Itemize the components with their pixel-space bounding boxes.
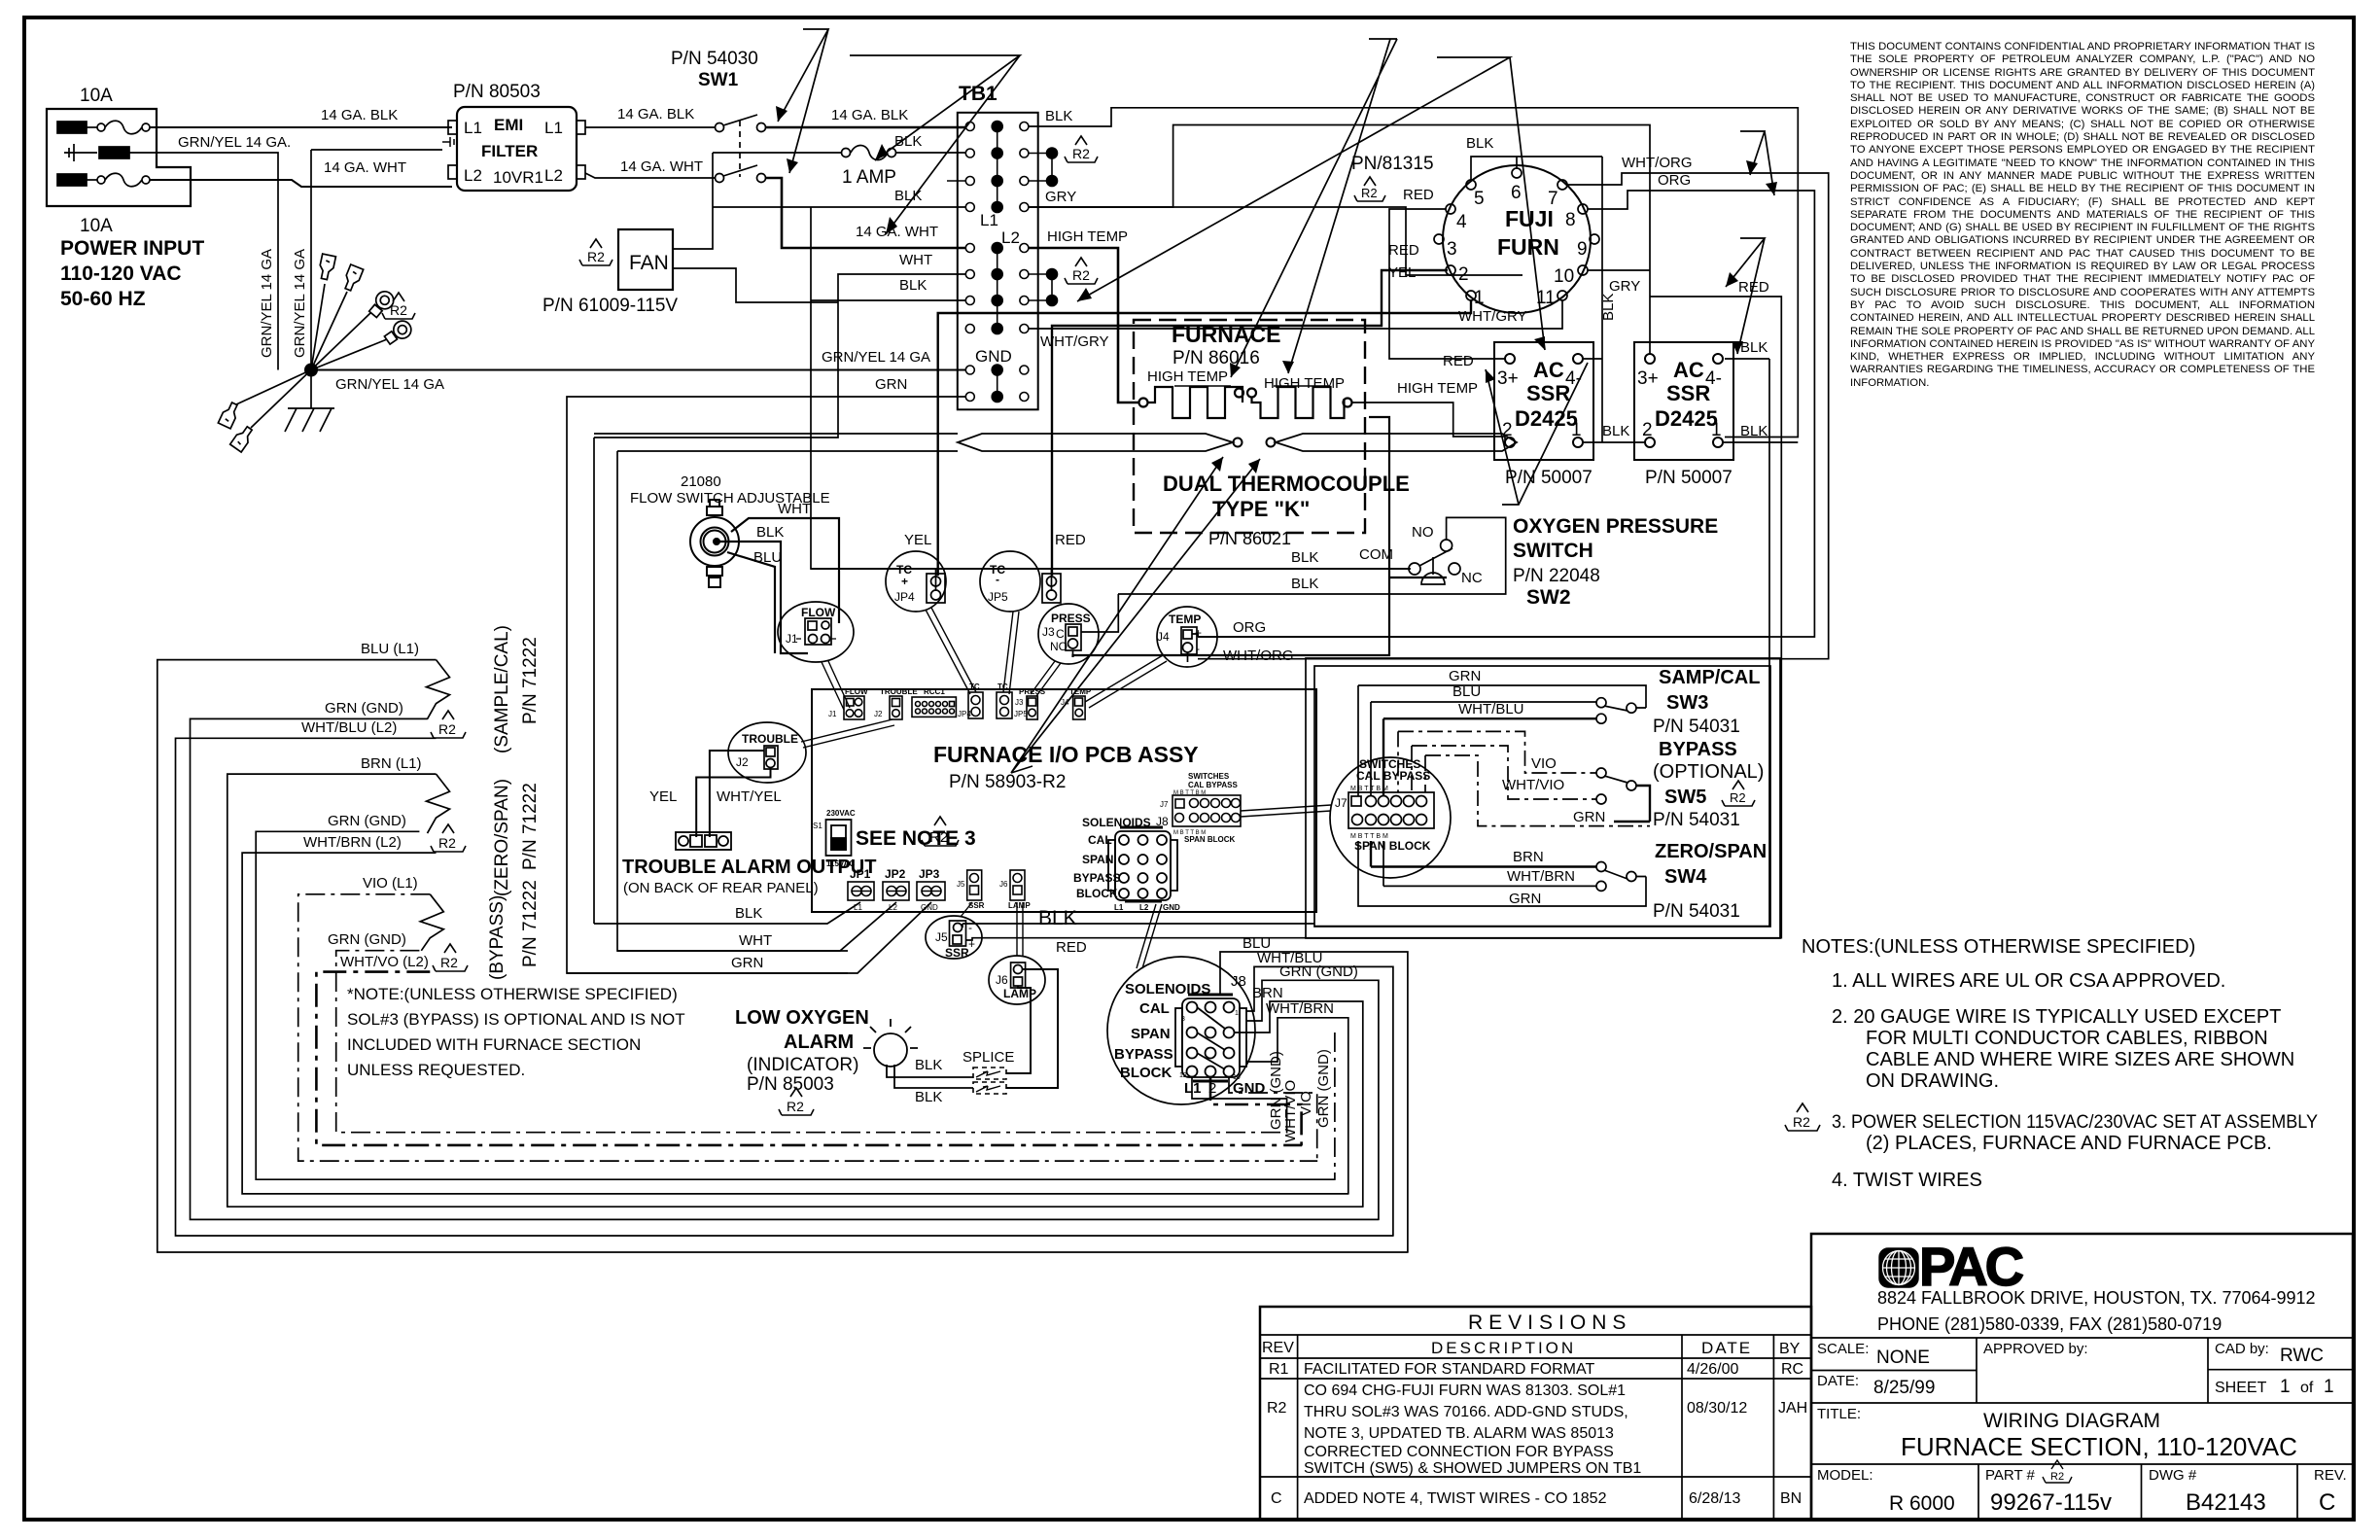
- svg-text:WHT/BRN: WHT/BRN: [1507, 868, 1575, 885]
- svg-text:L2: L2: [544, 166, 563, 185]
- svg-text:P/N 71222: P/N 71222: [520, 637, 541, 724]
- wire GRN to SW4 common: [1358, 841, 1646, 906]
- svg-text:WHT/VO (L2): WHT/VO (L2): [340, 954, 429, 970]
- wire BRN L1 loop: [227, 774, 1364, 1207]
- PCB JP2 connector: [883, 882, 909, 900]
- svg-text:3: 3: [1181, 1016, 1185, 1023]
- svg-text:SHEET: SHEET: [2215, 1380, 2267, 1396]
- svg-text:R2: R2: [929, 829, 948, 846]
- svg-text:P/N 86016: P/N 86016: [1172, 348, 1260, 368]
- svg-text:BRN (L1): BRN (L1): [361, 755, 422, 772]
- switch SW5 BYPASS dashed wiring: [1398, 731, 1650, 825]
- svg-text:JP3: JP3: [919, 867, 940, 881]
- leader arrow top left pair: [850, 55, 1020, 234]
- svg-text:J2: J2: [736, 755, 749, 769]
- svg-text:L2: L2: [1001, 228, 1020, 247]
- wires thermocouple to left loop verticals: [594, 434, 958, 951]
- svg-text:10A: 10A: [80, 216, 113, 236]
- R2 triangle sw5: [1722, 781, 1755, 806]
- svg-text:SSR: SSR: [968, 901, 985, 910]
- svg-text:PHONE (281)580-0339, FAX: PHONE (281)580-0339, FAX (281)580-0719: [1877, 1314, 2222, 1334]
- wire SSR2 pin1 BLK up right: [1723, 441, 1798, 443]
- wire EMI L2 to SW1: [585, 173, 716, 178]
- svg-text:GRN/YEL 14 GA.: GRN/YEL 14 GA.: [178, 134, 291, 151]
- svg-text:GRN/YEL 14 GA: GRN/YEL 14 GA: [259, 249, 275, 358]
- PCB J5 connector: [967, 870, 982, 900]
- TROUBLE balloon J2: [728, 722, 806, 783]
- svg-text:1: 1: [1235, 1010, 1239, 1017]
- wire J6 lamp circuit to splice: [1006, 969, 1058, 1088]
- svg-text:9: 9: [1577, 239, 1588, 260]
- svg-text:TEMP: TEMP: [1169, 612, 1201, 626]
- svg-text:CAL: CAL: [1088, 833, 1112, 847]
- wire BRN from J8: [1235, 1001, 1363, 1207]
- svg-text:C: C: [1271, 1490, 1282, 1507]
- svg-text:08/30/12: 08/30/12: [1687, 1400, 1747, 1417]
- svg-text:R 6000: R 6000: [1889, 1492, 1955, 1515]
- svg-text:SPAN BLOCK: SPAN BLOCK: [1184, 835, 1236, 844]
- svg-text:AC: AC: [1673, 358, 1704, 382]
- confidential proprietary text block: [1850, 41, 2315, 430]
- leader TROUBLE balloon to PCB J2: [801, 719, 894, 748]
- svg-text:R2: R2: [587, 249, 605, 264]
- svg-text:AC: AC: [1533, 358, 1564, 382]
- wire RED from J5 plus: [966, 938, 1306, 940]
- svg-text:P/N 50007: P/N 50007: [1645, 468, 1732, 488]
- svg-text:(ON BACK OF REAR PANEL): (ON BACK OF REAR PANEL): [623, 880, 819, 896]
- PAC logo globe: [1879, 1248, 1918, 1287]
- wire GRN(GND) left vertical from J8 bottom: [1192, 1077, 1287, 1133]
- fuse 1 AMP: [713, 146, 965, 160]
- svg-text:RED: RED: [1388, 242, 1419, 259]
- fuse F2 bottom: [57, 173, 150, 187]
- svg-text:SAMP/CAL: SAMP/CAL: [1659, 667, 1760, 688]
- leader TC+ to PCB JP4: [926, 608, 976, 694]
- svg-text:BYPASS: BYPASS: [1114, 1046, 1173, 1063]
- svg-text:21080: 21080: [681, 473, 721, 490]
- J6 LAMP balloon: [989, 956, 1045, 1004]
- svg-text:L1: L1: [980, 211, 998, 229]
- wire GRY TB1 row4 to SSR2 3+ riser: [1029, 125, 1650, 355]
- svg-text:SWITCH: SWITCH: [1513, 540, 1593, 562]
- wire SSR1 pin2 left (high temp): [1352, 402, 1505, 442]
- svg-text:BRN: BRN: [1252, 985, 1283, 1001]
- wire FAN bottom to WHT vertical: [673, 268, 838, 302]
- R2 triangle marker (TB1 lower): [1065, 258, 1098, 284]
- svg-text:GRN: GRN: [875, 376, 907, 393]
- svg-text:WHT/BRN: WHT/BRN: [1266, 1000, 1334, 1017]
- wire TB1 row6 WHT left-down loop to JP2: [594, 274, 965, 924]
- svg-text:GRN: GRN: [1509, 891, 1541, 907]
- svg-text:WIRING DIAGRAM: WIRING DIAGRAM: [1983, 1410, 2160, 1432]
- svg-text:GRN: GRN: [1449, 668, 1481, 684]
- svg-text:B42143: B42143: [2186, 1489, 2266, 1516]
- wire BLK from J5 minus: [962, 924, 1314, 927]
- svg-text:RC: RC: [1781, 1361, 1803, 1378]
- svg-text:5: 5: [1474, 189, 1485, 209]
- svg-text:L1: L1: [544, 119, 563, 137]
- PCB JP5 connector: [997, 692, 1012, 718]
- svg-text:SPAN: SPAN: [1082, 853, 1113, 866]
- svg-text:TITLE:: TITLE:: [1817, 1406, 1861, 1422]
- svg-text:BLU: BLU: [1452, 683, 1481, 700]
- heater element left: [1139, 387, 1244, 418]
- svg-text:14 GA. BLK: 14 GA. BLK: [831, 107, 908, 123]
- leader J6 balloon to PCB J6: [1017, 902, 1023, 956]
- svg-text:GRN (GND): GRN (GND): [1315, 1049, 1332, 1128]
- R2 triangle (alarm): [779, 1088, 814, 1115]
- svg-text:8824 FALLBROOK DRIVE, HOUSTO: 8824 FALLBROOK DRIVE, HOUSTON, TX. 77064…: [1877, 1288, 2316, 1308]
- PCB J4 connector: [1073, 696, 1086, 719]
- wire WHT/BRN from J8: [1246, 1018, 1348, 1195]
- leader arrow top right pair 1: [1740, 131, 1777, 195]
- svg-text:BLK: BLK: [915, 1089, 942, 1105]
- svg-text:(2) PLACES, FURNACE AND FURNAC: (2) PLACES, FURNACE AND FURNACE PCB.: [1866, 1133, 2272, 1154]
- svg-text:COM: COM: [1359, 546, 1393, 563]
- svg-text:2. 20 GAUGE WIRE IS TYPICALLY: 2. 20 GAUGE WIRE IS TYPICALLY USED EXCEP…: [1832, 1006, 2281, 1028]
- svg-text:GRN: GRN: [731, 955, 763, 971]
- svg-text:SPLICE: SPLICE: [962, 1049, 1014, 1066]
- svg-text:BRN: BRN: [1513, 849, 1544, 865]
- svg-text:J4: J4: [1157, 630, 1170, 644]
- svg-text:R2: R2: [1072, 146, 1090, 161]
- svg-text:UNLESS REQUESTED.: UNLESS REQUESTED.: [347, 1061, 525, 1079]
- PCB J8 connector SOLENOIDS: [1108, 827, 1177, 901]
- svg-text:GRN (GND): GRN (GND): [328, 813, 406, 829]
- splice: [973, 1067, 1006, 1094]
- svg-text:SW5: SW5: [1664, 787, 1706, 808]
- svg-text:P/N 50007: P/N 50007: [1505, 468, 1592, 488]
- svg-text:SOL#3 (BYPASS) IS OPTIONAL AND: SOL#3 (BYPASS) IS OPTIONAL AND IS NOT: [347, 1010, 685, 1029]
- PCB J6 connector: [1010, 870, 1025, 900]
- wire TB1 row3 stub: [947, 180, 965, 182]
- wire SSR1 4- BLK vertical: [1583, 157, 1602, 442]
- wire TB1 row5 HIGH TEMP down to furnace: [1029, 248, 1138, 402]
- svg-text:L1: L1: [464, 119, 482, 137]
- wire 1AMP fuse vertical down to SW2 COM: [811, 207, 1411, 569]
- svg-text:BLU (L1): BLU (L1): [361, 641, 419, 657]
- svg-text:BLK: BLK: [756, 524, 784, 541]
- svg-text:WHT/GRY: WHT/GRY: [1040, 333, 1109, 350]
- svg-text:4: 4: [1456, 212, 1467, 232]
- J5 SSR balloon: [926, 916, 982, 959]
- wire WHT/BLU from J8: [1246, 966, 1393, 1236]
- PCB JP4 connector: [968, 692, 983, 718]
- title block: [1811, 1234, 2353, 1520]
- svg-text:R2: R2: [440, 955, 458, 970]
- switch SW1 dashed link: [739, 121, 741, 177]
- svg-text:OXYGEN PRESSURE: OXYGEN PRESSURE: [1513, 515, 1718, 538]
- svg-text:8: 8: [1565, 210, 1576, 230]
- svg-text:TROUBLE: TROUBLE: [880, 687, 918, 696]
- wire BLK to JP1: [594, 902, 860, 924]
- svg-text:230VAC: 230VAC: [826, 809, 856, 818]
- svg-text:14 GA. BLK: 14 GA. BLK: [321, 107, 398, 123]
- wire element link top small box: [1174, 385, 1330, 387]
- svg-text:VIO (L1): VIO (L1): [363, 875, 418, 892]
- svg-text:CAL BYPASS: CAL BYPASS: [1356, 769, 1430, 783]
- EMI filter box P/N 80503: [442, 107, 585, 191]
- svg-text:P/N 71222: P/N 71222: [520, 880, 541, 967]
- svg-text:8/25/99: 8/25/99: [1873, 1378, 1935, 1398]
- svg-text:R2: R2: [1267, 1400, 1287, 1417]
- svg-text:50-60 HZ: 50-60 HZ: [60, 288, 146, 310]
- wire VIO dashdot from J8: [1229, 1077, 1317, 1162]
- svg-text:ON DRAWING.: ON DRAWING.: [1866, 1070, 1999, 1092]
- svg-text:R2: R2: [1793, 1114, 1810, 1130]
- svg-text:1: 1: [1474, 288, 1485, 308]
- svg-text:HIGH TEMP: HIGH TEMP: [1047, 228, 1128, 245]
- svg-text:VIO: VIO: [1298, 1091, 1314, 1116]
- FUJI FURN connector circle: [1434, 165, 1599, 313]
- svg-text:BLK: BLK: [1740, 339, 1767, 356]
- svg-text:WHT/YEL: WHT/YEL: [717, 788, 782, 805]
- svg-text:REV.: REV.: [2314, 1467, 2347, 1484]
- svg-text:LOW OXYGEN: LOW OXYGEN: [735, 1007, 869, 1029]
- wire GRN GND loop: [191, 718, 1380, 1219]
- svg-text:SW3: SW3: [1666, 692, 1708, 714]
- svg-text:NOTES:(UNLESS OTHERWISE SPECIF: NOTES:(UNLESS OTHERWISE SPECIFIED): [1802, 936, 2195, 958]
- leader arrow top SW1: [776, 29, 828, 173]
- svg-text:WHT/BRN (L2): WHT/BRN (L2): [303, 834, 402, 851]
- wire SW1 L2 down and to TB1 row5 14GA WHT: [765, 178, 965, 248]
- svg-text:WHT: WHT: [739, 932, 772, 949]
- svg-text:JP5: JP5: [1014, 710, 1028, 718]
- svg-text:J7: J7: [1335, 796, 1347, 810]
- svg-text:ZERO/SPAN: ZERO/SPAN: [1655, 841, 1767, 862]
- svg-text:NOTE 3, UPDATED TB. ALARM WAS: NOTE 3, UPDATED TB. ALARM WAS 85013: [1304, 1425, 1614, 1442]
- svg-text:-: -: [996, 573, 999, 586]
- svg-text:BLK: BLK: [1602, 423, 1629, 439]
- svg-text:M B T T B M: M B T T B M: [1173, 790, 1206, 796]
- svg-text:EMI: EMI: [494, 116, 523, 134]
- svg-text:1: 1: [2324, 1377, 2334, 1397]
- wire GRN/YEL to TB1 row9: [311, 369, 965, 371]
- wire TEMP+ ORG right: [1192, 634, 1769, 637]
- svg-text:JP5: JP5: [988, 590, 1008, 604]
- svg-text:REVISIONS: REVISIONS: [1468, 1312, 1631, 1334]
- wire TB1 row7 BLK to vertical x834: [811, 299, 965, 301]
- svg-text:6: 6: [1511, 183, 1522, 203]
- svg-text:APPROVED by:: APPROVED by:: [1983, 1341, 2088, 1357]
- svg-text:INCLUDED WITH FURNACE SECTION: INCLUDED WITH FURNACE SECTION: [347, 1035, 641, 1054]
- wire BLU L1 loop: [157, 660, 1409, 1252]
- wire SSR1 pin1 BLK to SSR2 pin2: [1583, 441, 1645, 443]
- PCB J3 connector: [1027, 696, 1037, 719]
- svg-text:GRN (GND): GRN (GND): [325, 700, 403, 717]
- svg-text:WHT/VIO: WHT/VIO: [1282, 1080, 1299, 1142]
- svg-text:YEL: YEL: [904, 532, 931, 548]
- svg-text:R2: R2: [1072, 267, 1090, 283]
- svg-text:S1: S1: [813, 822, 822, 830]
- svg-text:SPAN: SPAN: [1131, 1026, 1171, 1042]
- revisions table: [1260, 1307, 1811, 1520]
- svg-text:SCALE:: SCALE:: [1817, 1341, 1869, 1357]
- fuse F1 top: [57, 121, 150, 134]
- svg-text:REV: REV: [1262, 1340, 1294, 1356]
- wire GRN (GND) from J8: [1246, 980, 1379, 1220]
- wire L1 fuse to EMI filter: [150, 126, 452, 128]
- wire BRN to SW4: [1371, 841, 1596, 867]
- svg-text:SW2: SW2: [1526, 586, 1571, 609]
- svg-text:FOR MULTI CONDUCTOR CABLES, RI: FOR MULTI CONDUCTOR CABLES, RIBBON: [1866, 1028, 2268, 1049]
- svg-text:NO: NO: [1050, 640, 1067, 653]
- ground junction node: [304, 364, 318, 377]
- svg-text:-: -: [1196, 642, 1200, 655]
- svg-text:WHT: WHT: [778, 501, 811, 517]
- svg-text:BLK: BLK: [1600, 294, 1617, 321]
- svg-text:WHT/BLU (L2): WHT/BLU (L2): [301, 719, 397, 736]
- svg-text:3+: 3+: [1497, 368, 1519, 389]
- svg-text:FURNACE I/O PCB ASSY: FURNACE I/O PCB ASSY: [933, 742, 1199, 767]
- svg-text:P/N 58903-R2: P/N 58903-R2: [949, 772, 1066, 792]
- wire GRN to JP3: [567, 902, 931, 973]
- low oxygen alarm lamp: [863, 1019, 973, 1088]
- svg-text:JAH: JAH: [1778, 1400, 1807, 1417]
- wire FAN top to row4 BLK: [673, 153, 965, 249]
- wire WHT/VO L2 dashed loop: [316, 972, 1302, 1145]
- leader FLOW balloon to PCB J1: [822, 661, 850, 710]
- left cable bundle verticals and loop returns: [157, 660, 1409, 1252]
- svg-text:of: of: [2300, 1380, 2314, 1396]
- leader TC- to PCB JP5: [1003, 612, 1019, 694]
- svg-text:BY: BY: [1779, 1341, 1801, 1357]
- svg-text:P/N 22048: P/N 22048: [1513, 566, 1600, 586]
- leader PRESS to PCB J3: [1031, 661, 1061, 696]
- wire FUJI pin2 RED to JP5: [1052, 270, 1448, 576]
- svg-text:WHT/BLU: WHT/BLU: [1458, 701, 1524, 717]
- svg-text:WHT: WHT: [899, 252, 932, 268]
- wire TB1 row8 WHT/GRY right and up to furnace area: [1029, 300, 1562, 329]
- svg-text:P/N 85003: P/N 85003: [747, 1074, 834, 1095]
- TEMP balloon J4: [1157, 607, 1217, 667]
- SWITCHES balloon J7: [1330, 757, 1451, 878]
- svg-text:FILTER: FILTER: [481, 142, 538, 160]
- svg-text:P/N 80503: P/N 80503: [453, 82, 541, 102]
- svg-text:DWG #: DWG #: [2149, 1467, 2197, 1484]
- TC- balloon JP5: [980, 551, 1061, 612]
- svg-text:GND: GND: [1163, 903, 1180, 912]
- svg-text:3+: 3+: [1637, 368, 1659, 389]
- svg-text:SOLENOIDS: SOLENOIDS: [1082, 816, 1151, 829]
- wire VIO L1 dashed loop: [298, 894, 1318, 1161]
- svg-text:RED: RED: [1403, 187, 1434, 203]
- switch S1 230VAC/115VAC: [826, 820, 852, 856]
- wire WHT/BLU to SW3: [1383, 718, 1596, 796]
- leader arrow to TB1 R2: [1077, 57, 1545, 350]
- svg-text:THRU SOL#3 WAS 70166. ADD-GND: THRU SOL#3 WAS 70166. ADD-GND STUDS,: [1304, 1404, 1628, 1420]
- leader J5 balloon to PCB J5: [961, 902, 972, 917]
- svg-text:RED: RED: [1443, 353, 1474, 369]
- svg-text:BLOCK: BLOCK: [1076, 887, 1118, 900]
- svg-text:WHT/ORG: WHT/ORG: [1223, 647, 1294, 664]
- crimp lugs radiating from junction: [218, 254, 414, 452]
- svg-text:MODEL:: MODEL:: [1817, 1467, 1873, 1484]
- svg-text:C: C: [1056, 627, 1065, 641]
- svg-text:BLK: BLK: [915, 1057, 942, 1073]
- svg-text:SOLENOIDS: SOLENOIDS: [1125, 981, 1210, 997]
- svg-text:SWITCHES: SWITCHES: [1188, 772, 1230, 781]
- svg-text:4/26/00: 4/26/00: [1687, 1361, 1738, 1378]
- SOLENOIDS balloon: [1107, 957, 1255, 1104]
- wire WHT/BLU L2 loop: [176, 738, 1394, 1236]
- svg-text:P/N 61009-115V: P/N 61009-115V: [542, 296, 678, 316]
- svg-text:J8: J8: [1231, 973, 1246, 990]
- PCB RCC1 connector: [912, 697, 956, 717]
- svg-text:P/N 71222: P/N 71222: [520, 783, 541, 870]
- leader arrows to thermocouple: [1011, 457, 1260, 773]
- power input fuse box: [47, 109, 191, 206]
- svg-text:GRY: GRY: [1045, 189, 1076, 205]
- wire FUJI pin1 YEL to JP4: [938, 300, 1471, 576]
- wire ORG FUJI pin8 to SSR2 4- and TEMP plus: [1198, 191, 1814, 927]
- svg-text:3. POWER SELECTION 115VAC/230: 3. POWER SELECTION 115VAC/230VAC SET AT …: [1832, 1112, 2318, 1133]
- svg-text:JP4: JP4: [958, 710, 971, 718]
- wire GRN GND3 dashed loop: [336, 951, 1287, 1133]
- wire BLU to SW3: [1371, 702, 1596, 796]
- svg-text:ADDED NOTE 4, TWIST WIRES - CO: ADDED NOTE 4, TWIST WIRES - CO 1852: [1304, 1490, 1607, 1507]
- svg-text:+: +: [901, 575, 908, 588]
- AC SSR 2: [1634, 342, 1733, 460]
- svg-text:+: +: [1195, 626, 1202, 640]
- svg-text:14 GA. BLK: 14 GA. BLK: [617, 106, 694, 122]
- svg-text:BYPASS: BYPASS: [1073, 871, 1120, 885]
- svg-text:TC: TC: [969, 682, 980, 691]
- oxygen pressure switch SW2: [811, 517, 1506, 594]
- wire BLK bus row1 to SSR2 pin1: [1029, 108, 1798, 437]
- leader arrow big V at SSR1: [1486, 363, 1588, 505]
- svg-text:GND: GND: [1233, 1080, 1266, 1097]
- svg-text:J1: J1: [786, 632, 798, 646]
- svg-text:WHT/ORG: WHT/ORG: [1622, 155, 1693, 171]
- svg-text:6/28/13: 6/28/13: [1689, 1490, 1740, 1507]
- svg-text:ALARM: ALARM: [784, 1032, 854, 1053]
- svg-text:7: 7: [1548, 189, 1558, 209]
- wire WHT/BRN to SW4: [1383, 841, 1596, 886]
- svg-text:L2: L2: [464, 166, 482, 185]
- svg-text:SSR: SSR: [1666, 381, 1710, 405]
- svg-text:WHT/VIO: WHT/VIO: [1502, 777, 1564, 793]
- R2 triangle (see note 3): [922, 817, 959, 846]
- svg-text:GND: GND: [975, 347, 1012, 366]
- wires BLK WHT GRN below PCB: [567, 902, 931, 973]
- svg-text:RCC1: RCC1: [924, 687, 945, 696]
- ground junction vertical GRN/YEL: [278, 150, 442, 408]
- switches area enclosure box outer: [1306, 658, 1780, 938]
- svg-text:SEE NOTE 3: SEE NOTE 3: [856, 827, 976, 850]
- svg-text:RED: RED: [1056, 939, 1087, 956]
- wire J2 square to WHT/YEL: [696, 751, 770, 837]
- svg-text:J3: J3: [1042, 625, 1055, 639]
- switches area enclosure box inner: [1314, 666, 1770, 927]
- svg-text:RWC: RWC: [2280, 1346, 2324, 1366]
- heater element right: [1247, 387, 1352, 418]
- svg-text:SW1: SW1: [698, 70, 739, 90]
- svg-text:P/N 54031: P/N 54031: [1653, 717, 1740, 737]
- wire FUJI pin5 BLK to pin10 via bus: [1471, 157, 1650, 270]
- switch SW1 pole L2: [716, 174, 724, 183]
- wire J3 C to BLK bus: [1073, 417, 1448, 657]
- svg-text:BLK: BLK: [1466, 135, 1493, 152]
- svg-text:10VR1: 10VR1: [493, 168, 543, 187]
- PCB J1 connector: [844, 696, 864, 719]
- svg-text:JP2: JP2: [885, 867, 906, 881]
- wire WHT to JP2: [617, 902, 896, 951]
- R2 triangle marker (TB1 upper): [1065, 136, 1098, 162]
- svg-text:PRESS: PRESS: [1051, 612, 1091, 625]
- svg-text:FURN: FURN: [1497, 234, 1559, 260]
- wire RED SSR2 3+ riser to J5: [1306, 297, 1781, 938]
